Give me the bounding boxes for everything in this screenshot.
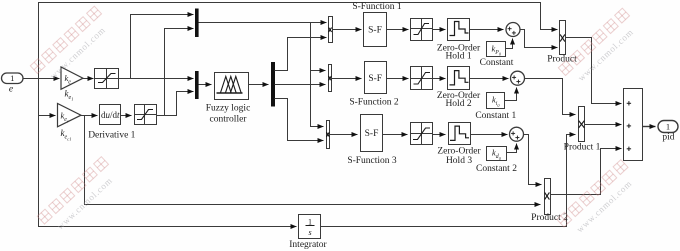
product block Product 1 — [579, 107, 585, 142]
wire S-F2 to saturation4 — [387, 78, 409, 80]
svg-text:S-F: S-F — [368, 74, 382, 84]
wire e branch down to Integrator — [39, 79, 297, 227]
wire kec1 rail down to Product2 input 2 — [85, 116, 541, 205]
wire kP0 to sum1 — [506, 39, 513, 49]
svg-text:1: 1 — [308, 218, 312, 227]
wire integrator out to Product1 input 2 — [321, 135, 576, 227]
wire S-F1 to saturation3 — [387, 29, 409, 31]
mux mid (to fuzzy) — [195, 71, 199, 99]
watermark top-left — [30, 6, 101, 73]
watermark bottom-left — [37, 157, 108, 224]
wire derivative to saturation2 — [121, 115, 132, 117]
mux mux2 (row 2) — [329, 65, 332, 92]
svg-text:du/dt: du/dt — [101, 110, 120, 120]
svg-text:S-F: S-F — [365, 129, 379, 139]
S-Function 1 block — [364, 13, 387, 47]
wire final sum to output port — [643, 126, 656, 128]
wire sat1 branch up to top mux input 1 — [131, 15, 194, 79]
S-Function 3 block — [361, 115, 383, 152]
wire sat4 to Zero-Order Hold 2 — [433, 78, 446, 80]
wire mid mux to fuzzy controller — [199, 84, 212, 86]
wire S-F3 to saturation5 — [383, 134, 408, 136]
svg-text:S-F: S-F — [368, 26, 382, 36]
constant ki0 — [487, 93, 505, 109]
mux mux1 (row 1) — [329, 17, 333, 43]
Zero-Order Hold 3 block — [449, 123, 471, 145]
mux top (e,ec) — [195, 9, 199, 38]
final sum block — [624, 89, 643, 161]
constant kP0 — [487, 42, 506, 57]
wire Product out to final sum input 1 — [566, 38, 622, 104]
svg-text:S-Function 3: S-Function 3 — [347, 156, 397, 166]
fuzzy logic controller — [215, 73, 249, 100]
wire mux2 to S-Function 2 — [332, 78, 362, 80]
wire kd0 to sum3 — [507, 144, 517, 153]
input port 1 (e) — [2, 73, 24, 84]
sum junction sum2 — [511, 71, 525, 85]
svg-text:Hold 3: Hold 3 — [446, 156, 472, 166]
svg-text:1: 1 — [666, 121, 670, 131]
wire sat2 branch up to top mux input 2 — [165, 29, 194, 116]
S-Function 2 block — [365, 62, 387, 94]
wire sat3 to Zero-Order Hold 1 — [433, 29, 446, 31]
wire ZOH1 to sum1 — [470, 29, 504, 31]
wire rail branch to mux2 input1 — [311, 70, 326, 72]
wire e branch up and top rail to Product input 1 — [39, 3, 558, 79]
watermark top-right — [558, 8, 629, 75]
svg-text:Product: Product — [547, 55, 577, 65]
wire sat1 to mid mux input 1 — [119, 78, 194, 80]
wire sat5 to Zero-Order Hold 3 — [433, 134, 446, 136]
svg-text:Integrator: Integrator — [289, 240, 327, 250]
wire ke1 to saturation1 — [83, 78, 94, 80]
svg-text:Hold 1: Hold 1 — [445, 51, 471, 61]
mux mux3 (row 3) — [327, 121, 330, 149]
product block Product 2 — [545, 179, 551, 215]
wire ZOH3 to sum3 — [471, 134, 508, 136]
wire Product1 out to final sum input 2 — [585, 124, 622, 126]
wire sat2 to mid mux input 2 — [157, 92, 194, 116]
svg-text:Fuzzy logic: Fuzzy logic — [206, 104, 251, 114]
wire fuzzy to demux — [249, 84, 269, 86]
saturation block 3 — [411, 19, 433, 41]
wire ki0 to sum2 — [505, 88, 517, 101]
wire demux out1 to mux1 input2 — [275, 38, 327, 71]
wire top mux output rail to mux1 input1 — [199, 22, 327, 24]
demux (3 outputs) — [271, 62, 275, 107]
gain kec1 — [58, 104, 82, 127]
svg-text:Derivative 1: Derivative 1 — [88, 130, 135, 140]
svg-text:pid: pid — [662, 133, 674, 143]
saturation block 2 — [135, 105, 157, 125]
svg-text:1: 1 — [10, 73, 14, 83]
svg-text:Hold 2: Hold 2 — [445, 99, 471, 109]
svg-text:controller: controller — [210, 115, 248, 125]
wire demux out3 to mux3 input2 — [275, 99, 324, 141]
svg-text:kec1: kec1 — [61, 128, 72, 141]
svg-text:Product 1: Product 1 — [564, 143, 601, 153]
sum junction sum3 — [510, 127, 524, 141]
wire sum1 out to Product input 2 — [521, 30, 558, 48]
svg-text:Constant 2: Constant 2 — [476, 164, 517, 174]
wire rail branch down to mux3 input1 — [311, 23, 324, 127]
watermark bottom-right — [557, 160, 628, 227]
Zero-Order Hold 2 block — [448, 67, 470, 90]
Zero-Order Hold 1 block — [448, 19, 470, 41]
constant kd0 — [487, 147, 507, 161]
wire Product2 out to final sum input 3 — [551, 149, 622, 195]
saturation block 4 — [411, 67, 433, 90]
svg-text:s: s — [308, 228, 311, 237]
wire mux1 to S-Function 1 — [333, 29, 362, 31]
product block Product — [560, 21, 566, 55]
svg-text:e: e — [9, 85, 13, 95]
svg-text:ke1: ke1 — [65, 88, 74, 101]
sum junction sum1 — [506, 23, 520, 37]
wire e branch to gain kec1 — [39, 115, 56, 117]
output port 1 (pid) — [658, 121, 678, 133]
svg-text:Constant 1: Constant 1 — [475, 111, 516, 121]
integrator block 1/s — [299, 215, 321, 239]
saturation block 5 — [411, 123, 433, 145]
wire kec1 to derivative — [81, 115, 98, 117]
svg-text:S-Function 2: S-Function 2 — [349, 97, 399, 107]
svg-text:S-Function 1: S-Function 1 — [352, 2, 402, 12]
saturation block 1 — [95, 69, 119, 89]
wire sum3 out to Product2 input 1 — [524, 135, 542, 185]
wire ZOH2 to sum2 — [470, 78, 509, 80]
wire e to gain ke1 — [23, 78, 60, 80]
derivative block du/dt — [100, 105, 121, 125]
gain ke1 — [61, 67, 83, 89]
wire demux out2 to mux2 input2 — [275, 84, 326, 86]
wire sum2 out to Product1 input 1 — [525, 79, 576, 115]
wire mux3 to S-Function 3 — [330, 134, 358, 136]
svg-text:Constant: Constant — [480, 58, 514, 68]
